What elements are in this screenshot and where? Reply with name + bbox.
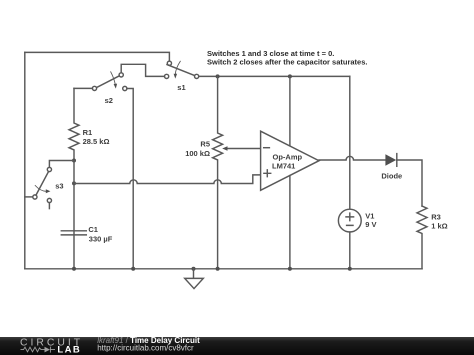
R5 wiper arrow to op-amp -input	[227, 148, 260, 150]
op-amp U1	[261, 131, 319, 190]
switch s1	[165, 61, 199, 78]
svg-text:28.5 kΩ: 28.5 kΩ	[83, 137, 110, 146]
svg-text:V1: V1	[365, 211, 374, 220]
resistor R3	[417, 206, 427, 269]
wire: op-amp V- supply pin to bottom rail	[289, 176, 291, 269]
node: junction R5 top	[216, 74, 220, 78]
resistor R1	[69, 88, 79, 160]
svg-text:C1: C1	[88, 225, 98, 234]
svg-text:R1: R1	[83, 128, 93, 137]
voltage source V1	[338, 209, 361, 232]
node: rail junction ground	[192, 267, 196, 271]
wire: V1 bottom lead	[349, 232, 351, 269]
node: rail junction op-amp V-	[288, 267, 292, 271]
node: junction R1 bottom / s3 tee	[72, 159, 76, 163]
capacitor C1	[61, 231, 86, 235]
svg-text:s2: s2	[105, 96, 113, 105]
svg-text:100 kΩ: 100 kΩ	[185, 149, 210, 158]
wire: diode cathode to R3	[397, 160, 422, 206]
node: junction op-amp V+ branch	[288, 74, 292, 78]
wire: op-amp output with hop over V1 line	[319, 156, 385, 160]
node: junction C1 column / op-amp +input tee	[72, 181, 76, 185]
svg-text:LM741: LM741	[272, 162, 295, 171]
wire: s1 to top supply rail corner	[199, 75, 350, 77]
wire: R1 bottom through C1 to bottom rail	[73, 161, 75, 269]
svg-text:Switch 2 closes after the capa: Switch 2 closes after the capacitor satu…	[207, 57, 367, 66]
CircuitLab logo resistor-diode glyph	[21, 347, 56, 353]
ground	[193, 269, 195, 279]
node: rail junction C1	[72, 267, 76, 271]
switch s3	[33, 167, 52, 208]
wire: left rail to s3 common	[25, 196, 33, 198]
svg-text:1 kΩ: 1 kΩ	[431, 222, 447, 231]
wire: top wire to s1	[25, 52, 170, 61]
node: rail junction V1	[348, 267, 352, 271]
svg-text:9 V: 9 V	[365, 220, 376, 229]
svg-text:330 µF: 330 µF	[89, 234, 113, 243]
svg-text:R5: R5	[200, 139, 210, 148]
svg-text:LAB: LAB	[57, 345, 81, 355]
op-amp inverting input mark	[264, 147, 270, 149]
node: rail junction s2 throw 2	[131, 267, 135, 271]
wire: op-amp V+ supply pin	[289, 76, 291, 145]
svg-text:R3: R3	[431, 212, 441, 221]
wire: junction to s3 top terminal	[49, 161, 74, 168]
wire: bottom rail	[25, 268, 422, 270]
wire: V1 top lead from supply rail	[349, 76, 351, 209]
switch s2	[92, 72, 127, 91]
svg-text:Diode: Diode	[381, 172, 402, 181]
svg-text:http://circuitlab.com/cv8vfcr: http://circuitlab.com/cv8vfcr	[97, 343, 194, 352]
diode D1	[385, 154, 396, 165]
wire: s2 throw 1 to s1 left terminal	[121, 64, 164, 76]
resistor R5 potentiometer	[213, 76, 223, 268]
node: rail junction R5	[216, 267, 220, 271]
op-amp non-inverting input mark	[264, 170, 271, 177]
wire: s2 common to R1 top	[74, 87, 92, 89]
wire: left rail	[24, 52, 26, 268]
svg-text:Op-Amp: Op-Amp	[273, 152, 303, 161]
svg-text:s1: s1	[177, 83, 185, 92]
wire: op-amp +input wire with hops over two verticals	[74, 175, 260, 184]
svg-text:s3: s3	[55, 181, 63, 190]
wire: s2 throw 2 down to bottom rail	[127, 89, 133, 269]
